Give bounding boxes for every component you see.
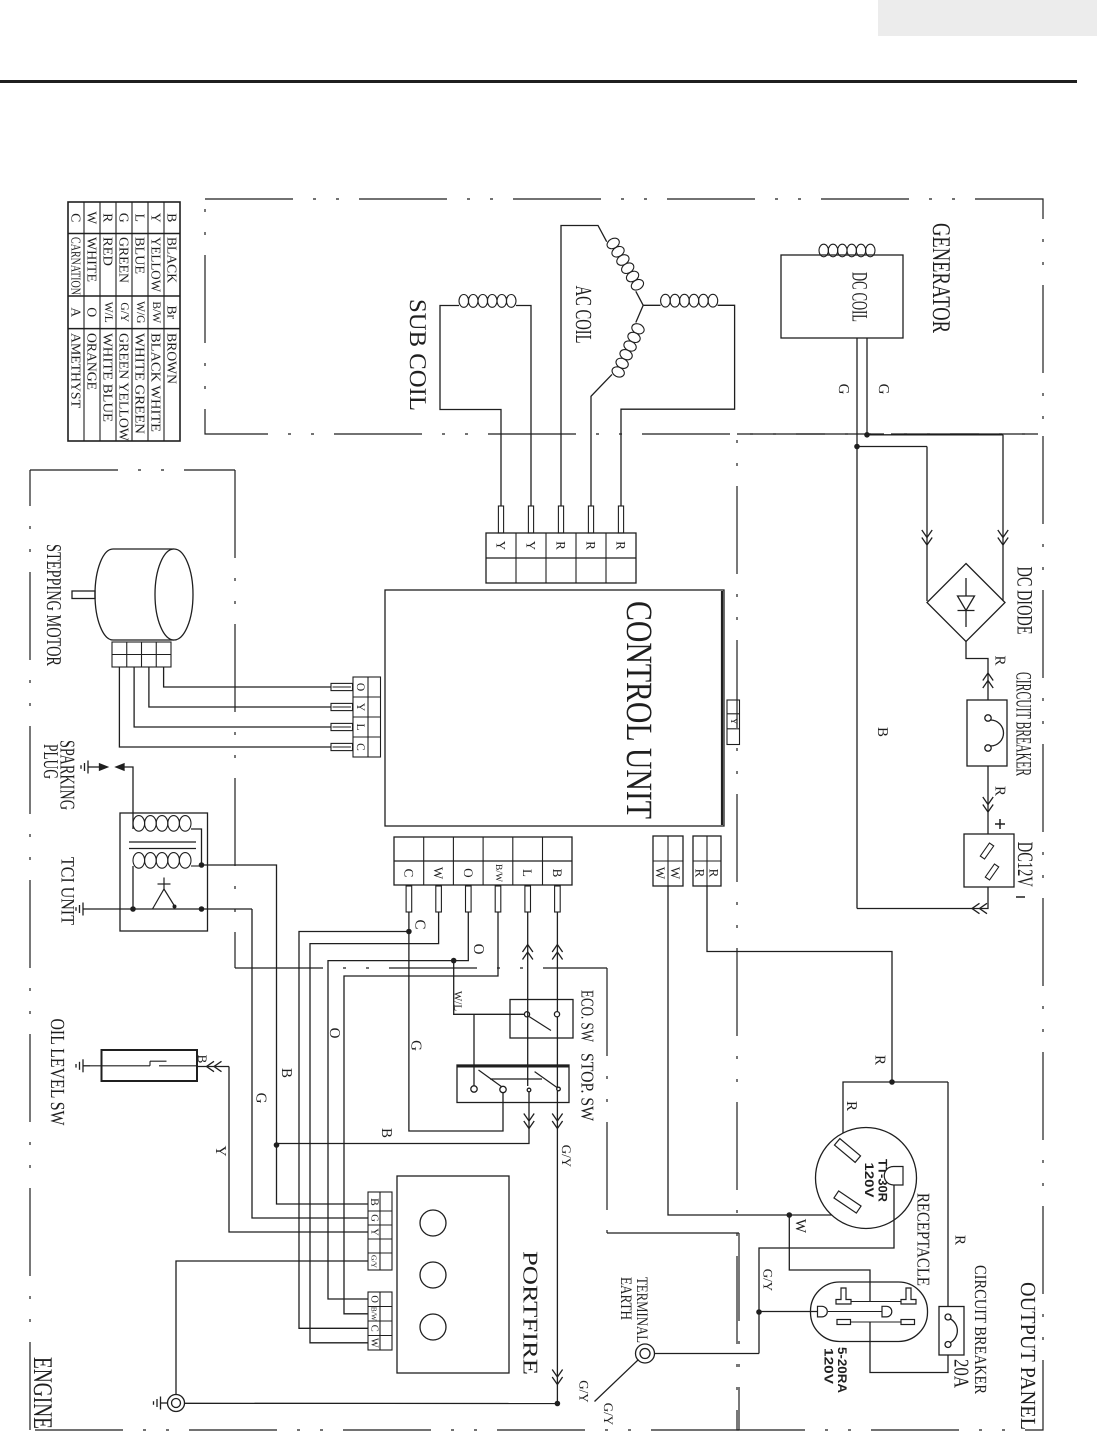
oil level switch box [102, 1050, 198, 1081]
svg-text:O: O [369, 1295, 380, 1303]
engine dashed boundary [30, 469, 235, 471]
svg-text:R: R [614, 541, 629, 550]
node junction earth bus [555, 1401, 561, 1407]
duplex D pin link [828, 1311, 882, 1313]
svg-text:Y: Y [149, 213, 164, 223]
svg-text:120V: 120V [862, 1163, 876, 1199]
stepping motor terminal block [112, 642, 171, 667]
wire pad OYLC 727 [331, 723, 353, 730]
svg-text:L: L [133, 214, 148, 222]
duplex D pin left [818, 1306, 828, 1317]
svg-text:PORTFIRE: PORTFIRE [519, 1251, 543, 1375]
svg-text:BLACK: BLACK [165, 237, 180, 283]
svg-text:CARNATION: CARNATION [69, 237, 84, 295]
wire sparking plug to TCI [125, 767, 134, 829]
svg-text:G/Y: G/Y [118, 302, 130, 323]
wire breaker to DC12V plus [987, 766, 989, 834]
control unit pad at 468.3 [466, 886, 472, 912]
control unit pad at 408.9 [406, 886, 412, 912]
svg-text:DC DIODE: DC DIODE [1013, 567, 1038, 635]
svg-text:AC COIL: AC COIL [571, 286, 596, 344]
wire W/L to eco switch [454, 961, 525, 1015]
wire G/Y from TT-30R ground pin [759, 1185, 894, 1354]
svg-text:G: G [117, 213, 132, 223]
wire WL branch to stop switch [473, 1014, 475, 1086]
duplex receptacle outline [811, 1282, 928, 1342]
duplex D pin right [882, 1306, 892, 1317]
TT-30R receptacle circle [816, 1128, 917, 1229]
duplex T slot right [901, 1288, 916, 1304]
DC diode bridge diamond [927, 564, 1005, 642]
svg-text:ECO. SW: ECO. SW [578, 990, 598, 1042]
svg-text:STEPPING MOTOR: STEPPING MOTOR [42, 544, 66, 666]
svg-text:ENGINE: ENGINE [28, 1357, 58, 1429]
wire B from TCI [202, 865, 277, 1145]
svg-text:5-20RA: 5-20RA [835, 1347, 849, 1393]
wire colour legend table [68, 202, 180, 441]
portfire indicator 1 [420, 1210, 446, 1236]
TT-30R ground pin [884, 1167, 903, 1186]
connector block O Y L C [353, 677, 381, 757]
svg-text:O: O [354, 683, 366, 691]
AC coil phase 2 winding [636, 305, 643, 322]
connector Y on control unit right edge [727, 700, 740, 745]
generator wire pad at 561 [558, 506, 563, 533]
svg-text:ORANGE: ORANGE [85, 333, 100, 390]
svg-text:AMETHYST: AMETHYST [69, 333, 84, 409]
svg-text:OUTPUT PANEL: OUTPUT PANEL [1016, 1282, 1040, 1430]
svg-text:R: R [101, 213, 116, 222]
wire earth terminal diagonal [595, 1360, 639, 1402]
svg-text:G: G [369, 1214, 380, 1222]
svg-text:O: O [461, 868, 476, 877]
svg-text:Y: Y [494, 541, 509, 551]
wire L pin to stop switch [527, 885, 529, 1086]
duplex T slot left [836, 1288, 851, 1304]
control unit box [385, 590, 724, 826]
wire R to 20A breaker [947, 1082, 949, 1307]
svg-text:OIL LEVEL SW: OIL LEVEL SW [46, 1019, 68, 1126]
wire G right from DC coil [866, 338, 868, 435]
svg-text:PLUG: PLUG [39, 744, 63, 779]
wire earth terminal to receptacle ground [655, 1353, 760, 1355]
svg-text:W: W [792, 1219, 808, 1234]
TCI secondary coil [133, 853, 145, 869]
svg-text:G/Y: G/Y [559, 1145, 574, 1168]
sparking plug gap symbol [81, 761, 95, 774]
wire B/W pin [344, 885, 498, 1314]
wire B from stop switch to portfire [277, 1092, 530, 1144]
svg-text:W: W [431, 867, 446, 880]
connector block W W [653, 836, 683, 886]
AC coil phase 3 winding [643, 304, 660, 306]
svg-text:W/L: W/L [452, 991, 464, 1011]
svg-text:W: W [668, 867, 683, 880]
page header grey box [878, 0, 1097, 36]
wire G from C junction to stop switch [409, 932, 503, 1132]
wire sub coil left lead Y [440, 306, 501, 532]
output panel dashed boundary box [737, 434, 1043, 1430]
svg-text:L: L [520, 869, 535, 877]
TCI bottom wire [120, 908, 252, 910]
svg-text:B: B [378, 1128, 394, 1138]
wire C to portfire [299, 932, 409, 1329]
eco switch box [510, 1000, 573, 1039]
DC circuit breaker box [967, 700, 1007, 766]
svg-text:G: G [408, 1040, 424, 1051]
control unit pad at 527.7 [525, 886, 531, 912]
connector block C W O B/W L B [394, 837, 572, 885]
portfire box [397, 1176, 509, 1373]
svg-text:B: B [165, 213, 180, 222]
wire G/Y from earth ring to portfire connector [176, 1261, 368, 1395]
svg-text:RECEPTACLE: RECEPTACLE [914, 1193, 934, 1286]
eco switch contacts [524, 1012, 529, 1017]
svg-text:RED: RED [101, 237, 116, 266]
svg-text:C: C [412, 919, 428, 929]
svg-text:CONTROL UNIT: CONTROL UNIT [618, 601, 659, 819]
wire to DC diode right [867, 434, 1003, 436]
oil level switch ground [76, 1059, 90, 1072]
TT-30R slot upper [834, 1139, 860, 1163]
wire DC12V minus return B [857, 887, 988, 909]
svg-text:Y: Y [369, 1228, 380, 1236]
svg-text:R: R [992, 786, 1008, 796]
wire to DC diode left [857, 446, 927, 448]
wire pad OYLC 707 [331, 703, 353, 710]
wire R to TT-30R [843, 1082, 948, 1133]
svg-text:B/W: B/W [370, 1307, 379, 1322]
svg-text:TCI UNIT: TCI UNIT [57, 857, 78, 925]
wire G/Y earth from stop switch [556, 1091, 558, 1404]
svg-text:O: O [85, 307, 100, 317]
DC12V socket box [964, 834, 1014, 887]
wire Y from oil switch [207, 1061, 222, 1071]
svg-text:W: W [653, 867, 668, 880]
node junction DC coil right lead [864, 432, 870, 438]
AC coil phase 1 winding [561, 226, 607, 532]
wire pad OYLC 747 [331, 743, 353, 750]
svg-text:DC12V: DC12V [1013, 842, 1038, 887]
svg-text:DC COIL: DC COIL [848, 272, 873, 322]
svg-text:Y: Y [354, 703, 366, 712]
node junction DC coil left lead / B wire [854, 444, 860, 450]
svg-text:R: R [952, 1235, 968, 1245]
control unit pad at 498 [495, 886, 501, 912]
duplex slot link top [851, 1301, 901, 1303]
svg-text:O: O [470, 944, 486, 955]
control unit pad at 438.6 [436, 886, 442, 912]
svg-text:G/Y: G/Y [761, 1269, 776, 1292]
engine earth ground symbol [154, 1397, 168, 1410]
duplex bottom slot left [837, 1320, 851, 1325]
svg-text:TERMINAL: TERMINAL [633, 1277, 650, 1343]
TCI trigger symbol [158, 883, 171, 885]
svg-text:Y: Y [728, 718, 739, 725]
wire B pin to eco switch [556, 885, 558, 1011]
TCI primary coil [133, 816, 145, 832]
svg-text:R: R [843, 1101, 859, 1111]
svg-text:B/W: B/W [493, 864, 503, 882]
generator dashed boundary box [205, 199, 1043, 434]
svg-text:R: R [693, 869, 708, 878]
TT-30R slot lower [834, 1191, 861, 1213]
svg-text:STOP. SW: STOP. SW [578, 1053, 598, 1121]
connector block R R [693, 836, 721, 886]
portfire indicator 3 [420, 1314, 446, 1340]
wire C pin [408, 885, 410, 932]
DC coil box [781, 255, 903, 338]
wire earth bus bottom [185, 1402, 558, 1404]
wire sub coil right lead Y [516, 306, 531, 532]
svg-text:Y: Y [524, 541, 539, 551]
wire W branch to duplex receptacle [789, 1215, 870, 1302]
node junction C wire [406, 929, 412, 935]
generator wire pad at 591 [588, 506, 593, 533]
svg-text:B: B [874, 727, 890, 737]
svg-text:A: A [69, 307, 84, 317]
wire W to receptacles [668, 886, 832, 1215]
svg-text:C: C [354, 743, 366, 751]
generator wire pad at 531 [528, 506, 533, 533]
portfire connector B G Y G/Y [368, 1192, 392, 1270]
TCI ground [76, 903, 90, 916]
wire O pin [328, 885, 468, 1299]
wire R to output panel [707, 886, 892, 1082]
svg-text:BLACK WHITE: BLACK WHITE [149, 333, 164, 432]
portfire connector O B/W C W [368, 1292, 392, 1350]
DC coil winding [819, 244, 828, 257]
svg-text:R: R [992, 655, 1008, 665]
svg-text:G/Y: G/Y [601, 1403, 616, 1426]
TCI unit box [120, 813, 208, 931]
TCI core [129, 841, 196, 843]
stop switch box [457, 1065, 569, 1103]
svg-text:SUB COIL: SUB COIL [404, 299, 430, 411]
wire G/Y to duplex ground pin [759, 1311, 817, 1313]
engine earth terminal ring [168, 1395, 185, 1412]
node junction R [889, 1079, 895, 1085]
node junction O / WL [451, 958, 457, 964]
svg-text:W: W [85, 211, 100, 224]
svg-text:CIRCUIT BREAKER: CIRCUIT BREAKER [1012, 672, 1037, 776]
svg-text:G/Y: G/Y [370, 1255, 379, 1269]
earth terminal ring [636, 1344, 655, 1363]
svg-text:G: G [253, 1093, 269, 1104]
svg-text:W/L: W/L [102, 302, 114, 323]
svg-text:GREEN YELLOW: GREEN YELLOW [117, 333, 132, 441]
stepping motor shaft [72, 591, 95, 599]
wire pad OYLC 687 [331, 683, 353, 690]
svg-text:EARTH: EARTH [617, 1277, 634, 1320]
svg-text:W/G: W/G [134, 301, 146, 323]
svg-text:GENERATOR: GENERATOR [927, 223, 956, 333]
generator connector block Y Y R R R [486, 533, 636, 583]
diode symbol inside bridge [965, 578, 967, 596]
svg-text:R: R [584, 541, 599, 550]
svg-text:Y: Y [212, 1146, 228, 1157]
oil level switch contact [90, 1065, 150, 1067]
svg-text:B: B [368, 1198, 380, 1206]
svg-text:B: B [550, 869, 565, 878]
wire DC diode to circuit breaker [966, 642, 988, 701]
svg-text:R: R [707, 869, 722, 878]
svg-text:W: W [369, 1338, 380, 1348]
svg-text:C: C [369, 1325, 380, 1332]
svg-text:C: C [69, 213, 84, 222]
wire W pin [310, 885, 439, 1343]
20A circuit breaker box [939, 1307, 964, 1356]
node junction W [787, 1212, 793, 1218]
generator wire pad at 501 [498, 506, 503, 533]
svg-text:GREEN: GREEN [117, 237, 132, 283]
duplex bottom slot right [901, 1320, 915, 1325]
svg-text:WHITE: WHITE [85, 237, 100, 282]
wire G from TCI [252, 909, 368, 1218]
svg-text:BROWN: BROWN [165, 333, 180, 384]
label plus [995, 823, 1005, 825]
svg-text:G: G [835, 384, 851, 395]
svg-text:R: R [872, 1055, 888, 1065]
SUB coil winding [459, 295, 469, 308]
svg-text:G: G [875, 384, 891, 395]
TCI internal wiring [191, 829, 202, 866]
svg-text:B: B [278, 1068, 294, 1078]
control unit pad at 557.4 [555, 886, 561, 912]
wire G left from DC coil [856, 338, 858, 447]
stop switch contacts [471, 1086, 477, 1092]
svg-text:G/Y: G/Y [577, 1380, 592, 1403]
svg-text:120V: 120V [822, 1348, 836, 1385]
svg-text:Br: Br [165, 306, 180, 320]
wire B eco to stop [556, 1017, 558, 1087]
node junction G/Y [756, 1309, 762, 1315]
svg-text:B: B [195, 1055, 210, 1064]
page header rule [0, 80, 1077, 83]
svg-text:R: R [554, 541, 569, 550]
svg-text:B/W: B/W [150, 301, 162, 323]
svg-text:20A: 20A [950, 1359, 974, 1389]
duplex bottom link [851, 1321, 902, 1323]
portfire indicator 2 [420, 1262, 446, 1288]
label minus [1016, 896, 1025, 898]
svg-text:YELLOW: YELLOW [149, 237, 164, 292]
svg-text:C: C [401, 869, 416, 878]
stepping motor wires to connector [164, 667, 332, 687]
svg-text:BLUE: BLUE [133, 237, 148, 274]
wire duplex to 20A breaker [870, 1322, 948, 1373]
generator wire pad at 621 [618, 506, 623, 533]
stepping motor body [95, 549, 174, 640]
svg-text:WHITE GREEN: WHITE GREEN [133, 333, 148, 434]
svg-text:WHITE BLUE: WHITE BLUE [101, 333, 116, 422]
svg-text:O: O [326, 1028, 342, 1039]
svg-text:L: L [354, 723, 366, 730]
